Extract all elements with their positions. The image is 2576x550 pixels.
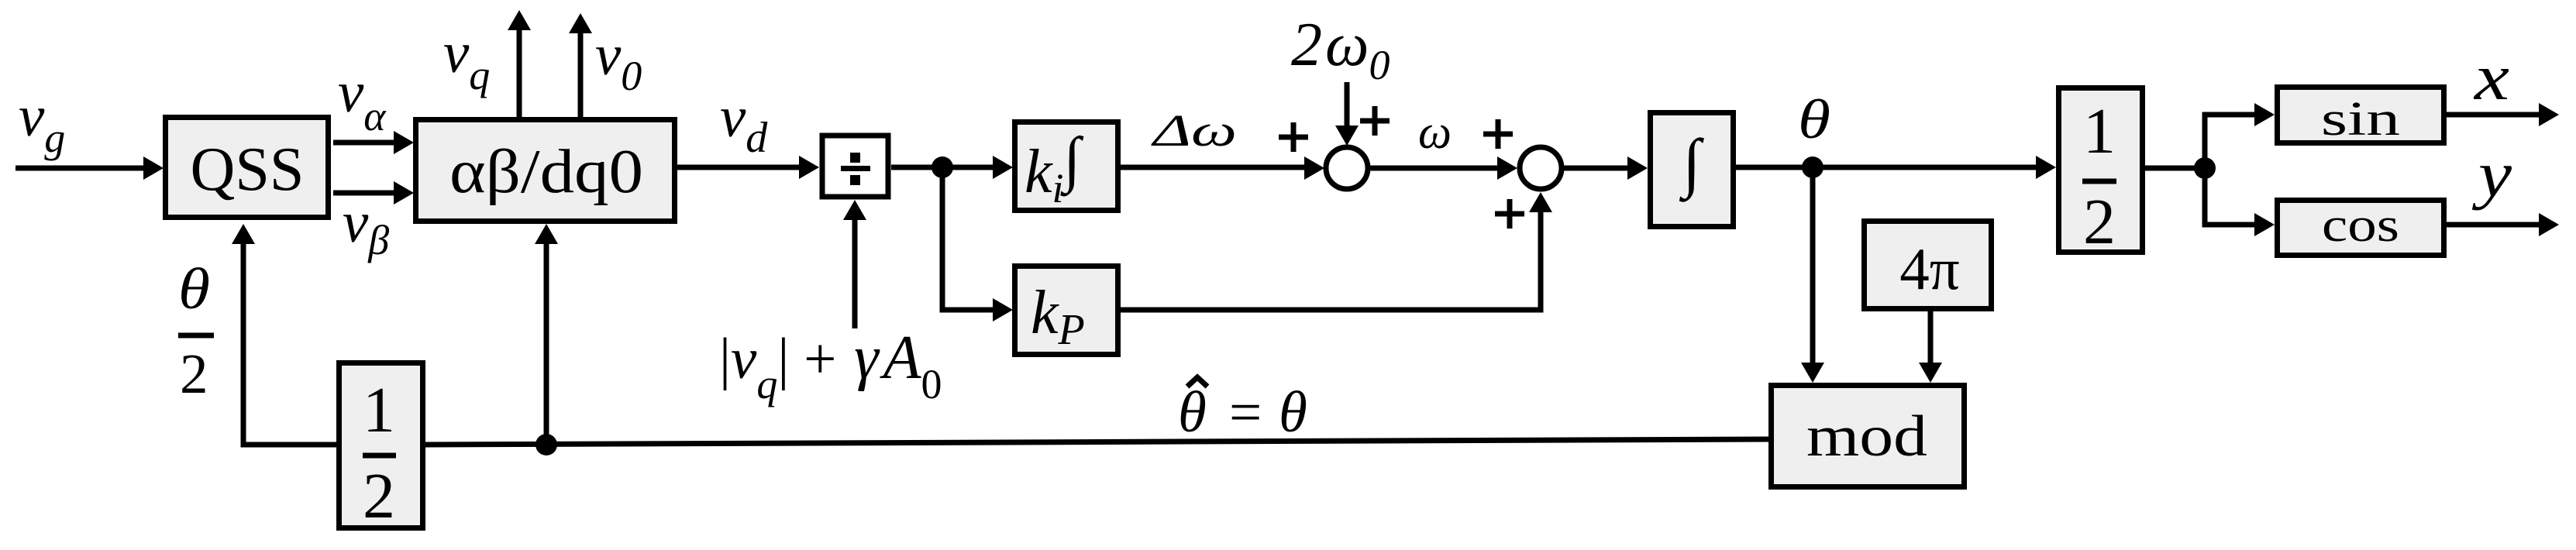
wire divider denominator input (843, 200, 866, 328)
junction dot feedback (536, 434, 557, 455)
svg-text:∫: ∫ (1679, 126, 1704, 202)
svg-text:θ: θ (1178, 380, 1207, 445)
block 4pi (1865, 222, 1992, 309)
wire to cos (2205, 168, 2275, 236)
wire theta to half right (2145, 166, 2205, 171)
summing junction sum1 (1326, 147, 1368, 189)
wire vg input (15, 156, 164, 180)
wire 4pi to mod (1919, 311, 1942, 383)
svg-text:αβ/dq0: αβ/dq0 (449, 138, 643, 206)
svg-text:4π: 4π (1899, 235, 1959, 302)
svg-text:vd: vd (720, 85, 768, 162)
wire sum2 to integrator (1562, 156, 1648, 180)
plus sign sum2 left (1483, 119, 1513, 149)
wire divider to ki (891, 156, 1013, 179)
junction dot half output (2194, 157, 2216, 179)
plus sign sum2 bottom (1495, 199, 1524, 229)
wire half to QSS (232, 224, 336, 445)
plus sign sum1 left (1279, 122, 1308, 152)
svg-text:1: 1 (363, 374, 395, 446)
block half left (339, 363, 423, 533)
svg-text:vα: vα (338, 60, 387, 139)
wire ki to sum1 (1121, 156, 1324, 180)
junction dot theta (1802, 156, 1824, 178)
svg-text:cos: cos (2322, 199, 2399, 252)
svg-text:vg: vg (19, 84, 65, 161)
wire feedback theta-hat (425, 439, 1768, 445)
wire v0 up output (569, 13, 592, 117)
plus sign sum1 topright (1360, 106, 1390, 136)
wire sum1 to sum2 (1367, 156, 1517, 180)
wire 2omega0 into sum1 (1335, 82, 1359, 146)
svg-text:v0: v0 (595, 23, 642, 99)
block QSS (166, 118, 329, 218)
block alpha-beta/dq0 (416, 120, 675, 222)
svg-text:ω: ω (1418, 106, 1452, 159)
block mod (1772, 386, 1965, 487)
wire x output (2447, 103, 2559, 126)
svg-text:θ: θ (178, 257, 210, 321)
svg-text:2ω0: 2ω0 (1291, 11, 1390, 88)
svg-text:2: 2 (180, 342, 208, 405)
svg-text:x: x (2473, 41, 2510, 114)
svg-text:=: = (1229, 380, 1262, 445)
summing junction sum2 (1520, 147, 1562, 189)
svg-text:1: 1 (2083, 95, 2116, 167)
svg-text:2: 2 (363, 460, 395, 532)
svg-text:QSS: QSS (191, 136, 305, 204)
block kp (1015, 266, 1118, 355)
node theta-hat label (1178, 377, 1307, 445)
svg-text:|vq| + γA0: |vq| + γA0 (719, 324, 942, 407)
block sin (2278, 88, 2444, 146)
svg-text:vβ: vβ (343, 191, 389, 263)
block ki integrator (1015, 122, 1118, 212)
svg-text:θ: θ (1279, 380, 1307, 445)
node theta/2 label (178, 257, 214, 405)
svg-text:y: y (2471, 138, 2512, 211)
svg-text:2: 2 (2083, 186, 2116, 258)
block cos (2278, 199, 2444, 256)
junction dot vd branch (932, 156, 953, 178)
svg-text:mod: mod (1806, 404, 1927, 469)
wire v_beta (333, 181, 414, 205)
block integrator (1651, 113, 1734, 227)
wire vd (677, 156, 819, 179)
wire feedback up to dq0 (535, 224, 558, 445)
wire branch down to kp (942, 167, 1013, 321)
block divider (822, 136, 888, 197)
wire theta down to mod (1801, 167, 1824, 383)
svg-text:vq: vq (443, 21, 490, 98)
svg-text:Δω: Δω (1151, 105, 1237, 156)
wire y output (2447, 213, 2559, 236)
svg-text:sin: sin (2321, 93, 2400, 146)
svg-text:θ: θ (1798, 88, 1830, 150)
wire vq up output (508, 10, 531, 117)
wire to sin (2205, 103, 2275, 168)
wire v_alpha (333, 131, 414, 154)
block half right (2059, 88, 2143, 259)
wire kp to sum2 (1121, 192, 1552, 310)
wire theta to half block (1736, 156, 2056, 179)
